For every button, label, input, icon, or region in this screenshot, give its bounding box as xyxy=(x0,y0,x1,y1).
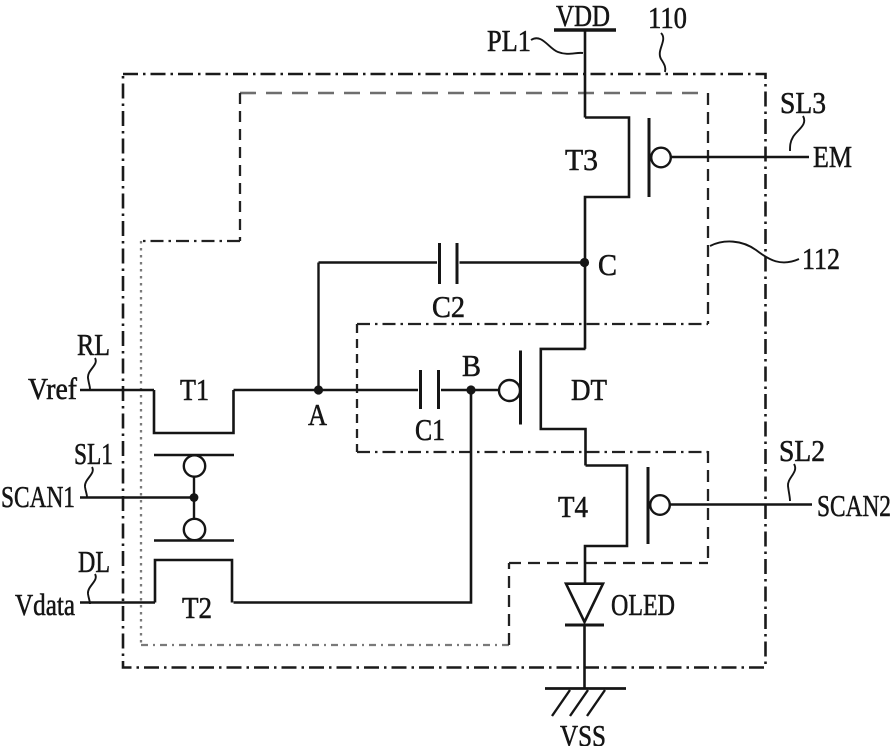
boundary 112 bottom-right notch horizontal xyxy=(509,562,708,564)
wire T4 gate to SCAN2 xyxy=(670,503,812,505)
diode OLED triangle xyxy=(566,584,603,622)
ground slash 1 xyxy=(552,690,570,716)
wire T2 to node B xyxy=(234,390,472,603)
svg-text:SL3: SL3 xyxy=(780,85,826,120)
svg-text:Vdata: Vdata xyxy=(15,587,75,622)
svg-text:SCAN1: SCAN1 xyxy=(1,479,75,514)
transistor T4 gate circle xyxy=(650,495,670,515)
boundary box 110 (outer dash-dot pixel boundary) xyxy=(123,74,766,668)
boundary 112 top-left notch vertical xyxy=(239,93,241,241)
svg-text:T1: T1 xyxy=(180,372,209,407)
svg-text:C1: C1 xyxy=(415,412,445,447)
capacitor C2 left wire xyxy=(319,261,438,263)
wire T3 gate to EM xyxy=(671,156,809,158)
ground slash 3 xyxy=(587,690,605,716)
wire Vref to T1 xyxy=(80,389,154,392)
svg-text:110: 110 xyxy=(648,0,687,35)
ground slash 2 xyxy=(570,690,588,716)
svg-text:C2: C2 xyxy=(432,289,465,324)
leader SL1 xyxy=(85,467,93,497)
wire VDD to T3 xyxy=(584,31,587,118)
transistor T3 source/drain path xyxy=(585,118,629,349)
transistor DT channel path xyxy=(541,349,586,466)
boundary 112 bottom-right notch vertical xyxy=(508,563,510,645)
transistor DT gate circle xyxy=(499,380,520,401)
transistor T1 gate circle xyxy=(184,455,205,476)
wire T1 to node A to C1 xyxy=(234,389,419,392)
boundary 112 top-left notch horizontal xyxy=(141,240,240,242)
leader RL xyxy=(88,358,96,389)
ground VSS bar xyxy=(545,687,626,690)
boundary 112 right lower edge xyxy=(707,451,709,563)
transistor T1 gate bar xyxy=(154,454,234,457)
leader PL1 xyxy=(531,38,583,54)
leader 110 xyxy=(660,33,666,72)
boundary 112 bottom edge (dotted) xyxy=(141,644,509,646)
wire Vdata to T2 xyxy=(80,601,155,604)
wire between gate circles xyxy=(193,477,195,519)
wire OLED to ground xyxy=(583,625,586,688)
svg-text:OLED: OLED xyxy=(611,587,675,622)
node A xyxy=(314,385,323,394)
transistor T2 gate bar xyxy=(154,539,234,542)
svg-text:T3: T3 xyxy=(565,142,598,177)
boundary 112 middle notch upper horizontal xyxy=(357,323,708,325)
svg-text:Vref: Vref xyxy=(28,371,78,406)
boundary 112 right upper edge xyxy=(707,93,709,324)
svg-text:112: 112 xyxy=(802,241,840,276)
transistor DT gate bar xyxy=(519,351,522,425)
svg-text:T2: T2 xyxy=(182,590,212,625)
svg-text:SCAN2: SCAN2 xyxy=(817,488,891,523)
leader SL3 xyxy=(790,116,804,151)
svg-text:RL: RL xyxy=(77,327,110,362)
VDD power bar xyxy=(554,28,616,31)
svg-text:T4: T4 xyxy=(558,489,588,524)
boundary 112 top edge xyxy=(240,92,708,95)
transistor T1 channel path xyxy=(154,390,234,433)
svg-text:B: B xyxy=(462,348,481,383)
svg-text:A: A xyxy=(308,397,328,432)
svg-text:EM: EM xyxy=(813,139,852,174)
transistor T3 gate circle xyxy=(651,148,671,168)
svg-text:C: C xyxy=(598,247,617,282)
transistor T2 channel path xyxy=(155,560,232,603)
boundary 112 middle notch lower horizontal xyxy=(357,451,708,453)
wire SCAN1 xyxy=(80,496,194,499)
svg-text:DT: DT xyxy=(571,372,607,407)
svg-text:DL: DL xyxy=(78,544,110,579)
transistor T4 gate bar xyxy=(647,467,650,544)
svg-text:SL2: SL2 xyxy=(779,433,825,468)
svg-text:SL1: SL1 xyxy=(74,436,113,471)
capacitor C2 plates xyxy=(440,243,458,284)
capacitor C1 right wire to node B xyxy=(441,389,499,391)
diode OLED cathode bar xyxy=(565,624,604,627)
leader 112 xyxy=(710,241,799,262)
leader DL xyxy=(88,574,96,604)
capacitor C2 right wire xyxy=(460,261,585,263)
node C xyxy=(580,258,589,267)
transistor T2 gate circle xyxy=(184,519,205,540)
transistor T3 gate bar xyxy=(648,118,651,197)
svg-text:VDD: VDD xyxy=(556,0,610,33)
capacitor C1 plates xyxy=(421,370,439,409)
wire node A up to C2 xyxy=(317,263,319,391)
transistor T4 source/drain path xyxy=(585,466,627,584)
node SCAN1 junction xyxy=(190,493,199,502)
boundary 112 middle notch vertical xyxy=(356,324,358,452)
svg-text:VSS: VSS xyxy=(560,718,606,746)
node B xyxy=(466,385,475,394)
leader SL2 xyxy=(788,464,795,501)
svg-text:PL1: PL1 xyxy=(487,23,531,58)
boundary 112 left edge (dotted) xyxy=(140,241,142,645)
